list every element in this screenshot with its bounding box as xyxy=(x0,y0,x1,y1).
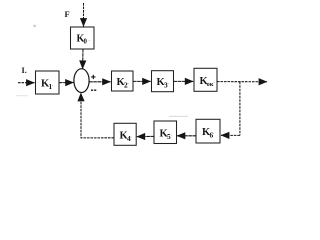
block K5 xyxy=(154,121,177,144)
block K0 xyxy=(71,27,95,49)
svg-text:.: . xyxy=(214,80,215,85)
block K2 xyxy=(112,71,134,91)
svg-text:.: . xyxy=(213,131,214,136)
svg-text:.: . xyxy=(25,66,27,75)
wire K5 output into K4 xyxy=(137,135,154,137)
svg-text:.: . xyxy=(171,133,172,138)
wire K6 output into K5 xyxy=(177,135,196,137)
node F input label xyxy=(65,9,70,19)
svg-text:.: . xyxy=(131,135,132,140)
svg-text:.: . xyxy=(52,83,53,88)
wire input arrow into K1 xyxy=(18,82,35,84)
wire F input arrow into K0 xyxy=(83,3,85,27)
wire summing junction output into K2 xyxy=(89,81,110,83)
wire feedback from K4 to summing junction xyxy=(81,93,114,138)
block K1 xyxy=(36,71,60,94)
block K6 xyxy=(196,119,220,143)
wire K2 output into K3 xyxy=(133,80,151,82)
wire branch into K6 xyxy=(221,134,240,136)
svg-text:0: 0 xyxy=(84,39,88,46)
wire K1 output into summing junction xyxy=(59,82,74,84)
svg-text:.: . xyxy=(89,38,90,43)
block K4 xyxy=(114,123,136,145)
plus sign at junction output xyxy=(91,75,95,79)
block K3 xyxy=(152,71,174,92)
summing junction xyxy=(74,69,89,93)
wire K3 output into Kok xyxy=(174,80,194,82)
block Kok xyxy=(194,68,217,91)
wire branch node down from output xyxy=(239,82,241,136)
wire system output arrow xyxy=(217,81,267,83)
svg-text:.: . xyxy=(168,81,169,86)
node I input label xyxy=(22,66,27,75)
svg-text:F: F xyxy=(65,9,70,19)
minus sign at junction output xyxy=(91,89,96,91)
svg-text:.: . xyxy=(128,81,129,86)
wire K0 output into summing junction xyxy=(82,49,84,69)
